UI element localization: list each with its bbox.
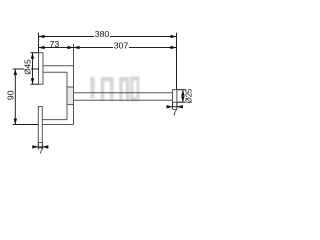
label 307 — [113, 42, 129, 49]
label dia45 — [24, 60, 31, 75]
inner bottom edge — [42, 119, 67, 121]
dim line 73 + 307 — [39, 47, 177, 49]
rail top — [74, 92, 173, 94]
380 right arrow — [171, 35, 177, 39]
svg-text:73: 73 — [50, 39, 60, 49]
fixture — [38, 44, 177, 143]
watermark logo — [90, 77, 139, 102]
dim line 380 — [39, 36, 177, 38]
dia25 top arrow — [181, 90, 185, 96]
arm bottom edge — [43, 71, 67, 73]
73 left arrow — [39, 46, 45, 50]
dia25 bottom arrow — [181, 96, 185, 102]
rail bottom — [74, 99, 173, 101]
7 right dim right arrow — [177, 105, 183, 109]
7 left dim line — [32, 146, 48, 148]
307 left arrow — [74, 46, 80, 50]
svg-text:Ø25: Ø25 — [184, 88, 193, 103]
svg-text:7: 7 — [39, 145, 44, 155]
boss bottom rung — [67, 104, 74, 106]
dia25 ext ticks — [177, 89, 186, 91]
label 380 — [94, 31, 110, 38]
ext left — [38, 33, 40, 53]
outer bottom edge — [42, 124, 73, 126]
dia45 bottom arrow — [31, 78, 35, 84]
7 left dim right arrow — [42, 145, 48, 149]
90 ext bottom — [13, 124, 39, 126]
73 right arrow — [68, 46, 74, 50]
380 left arrow — [39, 35, 45, 39]
dia45 ext ticks — [30, 52, 38, 54]
dimensions — [13, 33, 186, 150]
svg-text:7: 7 — [172, 107, 177, 117]
90 ext top — [13, 68, 39, 70]
boss top rung — [67, 86, 74, 88]
dia45 dim line — [32, 53, 34, 84]
inner vertical edge — [66, 72, 68, 119]
dia25 dim line — [182, 90, 184, 103]
7 left ext lines — [37, 143, 39, 150]
svg-text:Ø45: Ø45 — [23, 59, 32, 75]
7 left dim left arrow — [32, 145, 38, 149]
dia45 top arrow — [31, 53, 35, 59]
7 right ext lines — [172, 102, 174, 109]
outer vertical edge / extension — [73, 44, 75, 125]
7 right dim left arrow — [167, 105, 173, 109]
strip (end disc side view) — [38, 107, 42, 143]
7 right dim line — [167, 106, 182, 108]
arm top edge — [43, 65, 74, 67]
307 right arrow — [171, 46, 177, 50]
end cap — [173, 90, 177, 103]
svg-text:90: 90 — [5, 90, 15, 100]
wall plate — [39, 53, 44, 84]
90 dim line — [14, 69, 16, 125]
boss fill between support edges — [67, 87, 73, 104]
svg-text:307: 307 — [114, 41, 129, 51]
svg-text:380: 380 — [95, 29, 110, 39]
90 bottom arrow — [14, 119, 17, 125]
ext right — [176, 33, 178, 90]
arrowheads — [14, 35, 185, 149]
90 top arrow — [14, 69, 17, 75]
